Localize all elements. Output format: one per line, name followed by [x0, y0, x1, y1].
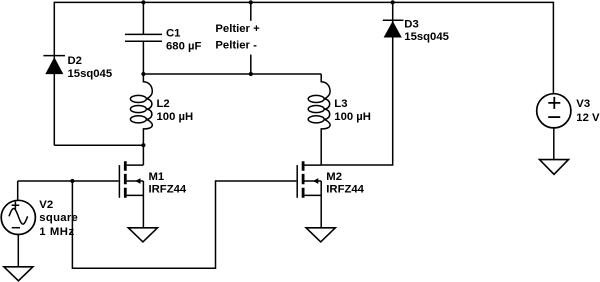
- svg-text:1 MHz: 1 MHz: [39, 226, 74, 238]
- svg-text:V3: V3: [576, 98, 590, 110]
- svg-text:L3: L3: [334, 98, 347, 110]
- svg-text:15sq045: 15sq045: [404, 31, 449, 43]
- svg-text:IRFZ44: IRFZ44: [326, 183, 364, 195]
- svg-text:100 µH: 100 µH: [334, 111, 371, 123]
- svg-text:15sq045: 15sq045: [68, 68, 113, 80]
- svg-text:12 V: 12 V: [576, 112, 600, 124]
- svg-text:V2: V2: [39, 199, 53, 211]
- svg-text:Peltier +: Peltier +: [215, 23, 260, 35]
- svg-text:L2: L2: [157, 98, 170, 110]
- svg-text:M2: M2: [326, 171, 342, 183]
- svg-text:Peltier -: Peltier -: [215, 39, 257, 51]
- svg-text:square: square: [39, 212, 78, 224]
- svg-text:100 µH: 100 µH: [157, 111, 194, 123]
- svg-text:D3: D3: [404, 19, 418, 31]
- svg-text:IRFZ44: IRFZ44: [149, 183, 187, 195]
- svg-text:680 µF: 680 µF: [166, 40, 201, 52]
- svg-text:M1: M1: [149, 171, 165, 183]
- svg-text:C1: C1: [166, 27, 180, 39]
- svg-text:D2: D2: [68, 55, 82, 67]
